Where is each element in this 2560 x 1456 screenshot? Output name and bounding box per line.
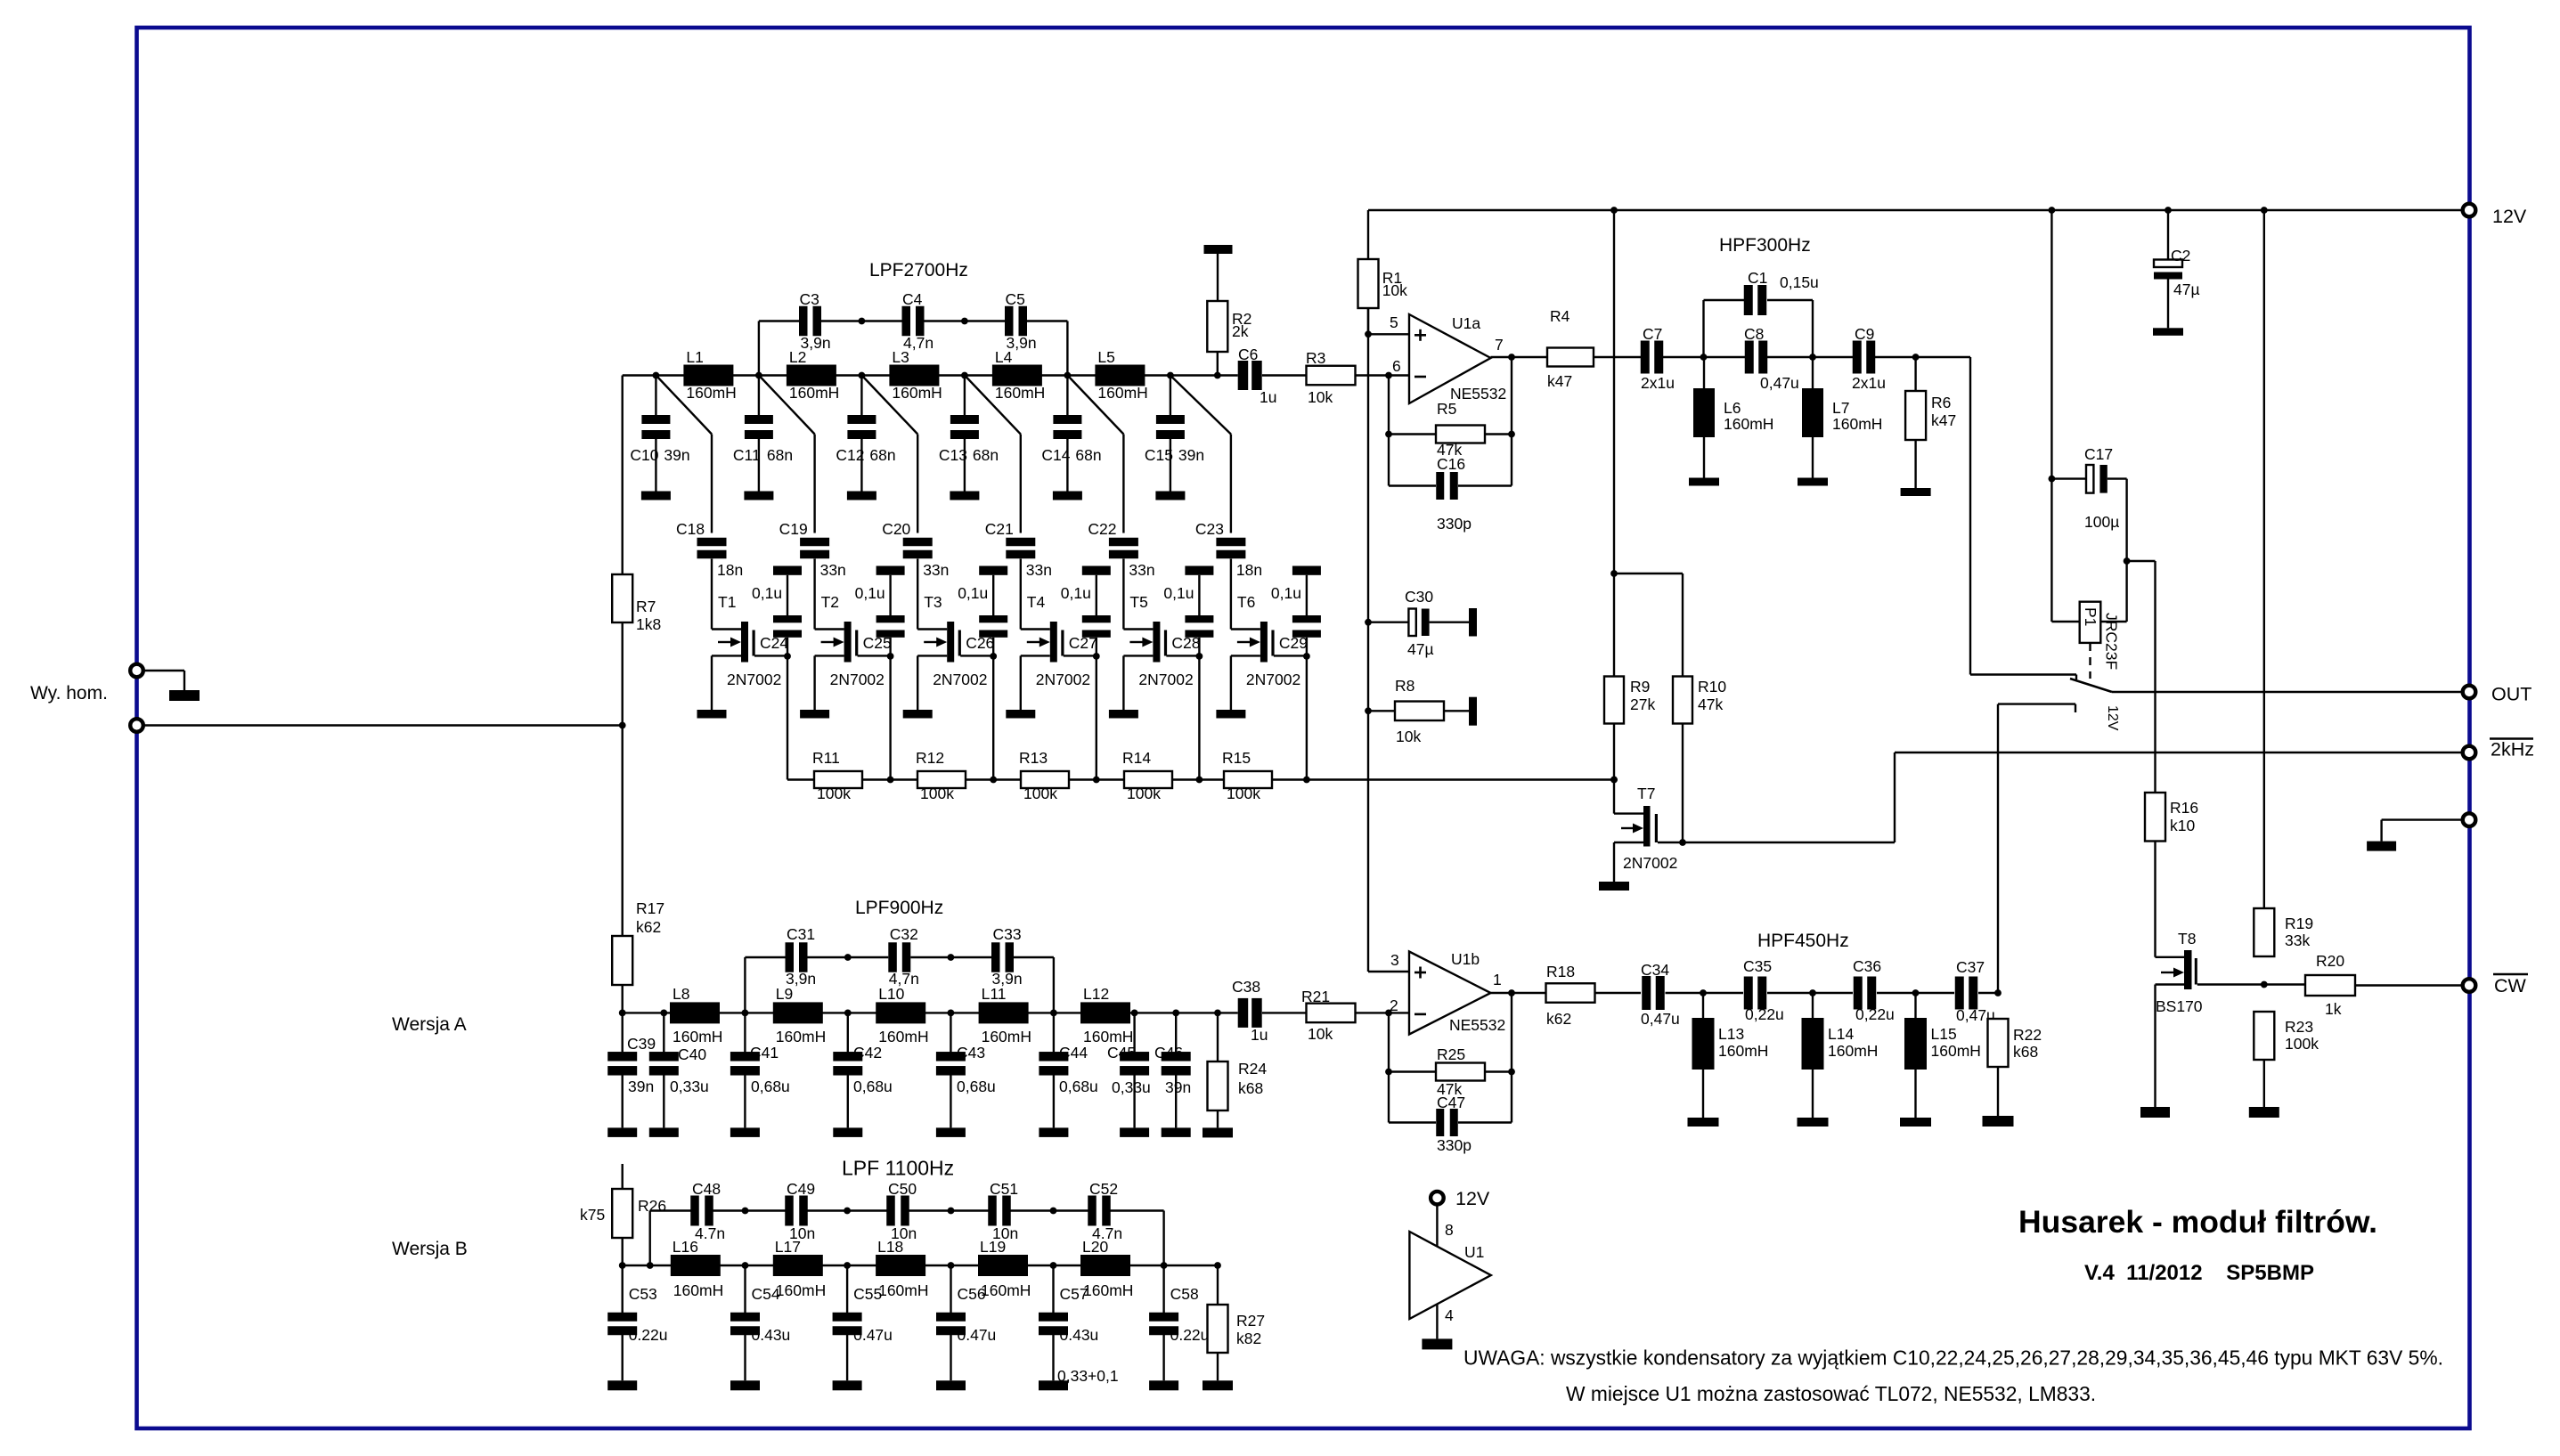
svg-text:2N7002: 2N7002 bbox=[1138, 671, 1193, 688]
svg-text:k47: k47 bbox=[1547, 372, 1572, 390]
svg-text:0,68u: 0,68u bbox=[751, 1078, 790, 1095]
svg-text:100k: 100k bbox=[2285, 1035, 2319, 1053]
svg-text:3,9n: 3,9n bbox=[786, 970, 816, 988]
svg-text:33n: 33n bbox=[820, 561, 846, 579]
svg-text:0,22u: 0,22u bbox=[1745, 1005, 1784, 1023]
svg-text:C15: C15 bbox=[1145, 446, 1173, 464]
svg-text:0,33+0,1: 0,33+0,1 bbox=[1057, 1367, 1119, 1385]
svg-text:160mH: 160mH bbox=[1832, 415, 1882, 433]
svg-text:L14: L14 bbox=[1828, 1025, 1854, 1043]
svg-text:C24: C24 bbox=[760, 634, 788, 652]
svg-text:12V: 12V bbox=[2105, 705, 2120, 731]
svg-text:C38: C38 bbox=[1232, 978, 1260, 996]
svg-text:160mH: 160mH bbox=[673, 1281, 723, 1299]
svg-text:C41: C41 bbox=[750, 1044, 779, 1061]
svg-text:U1a: U1a bbox=[1452, 314, 1480, 332]
svg-text:0,1u: 0,1u bbox=[1271, 584, 1301, 602]
svg-text:R26: R26 bbox=[638, 1197, 666, 1215]
svg-text:160mH: 160mH bbox=[1083, 1028, 1133, 1045]
svg-text:18n: 18n bbox=[1236, 561, 1262, 579]
svg-text:C35: C35 bbox=[1743, 957, 1772, 975]
svg-text:0,1u: 0,1u bbox=[752, 584, 782, 602]
svg-text:C30: C30 bbox=[1405, 588, 1433, 606]
svg-text:R9: R9 bbox=[1630, 678, 1650, 695]
svg-text:R21: R21 bbox=[1301, 988, 1330, 1005]
svg-text:100k: 100k bbox=[1023, 785, 1057, 802]
svg-text:C39: C39 bbox=[627, 1035, 656, 1053]
svg-text:160mH: 160mH bbox=[776, 1028, 826, 1045]
svg-text:68n: 68n bbox=[767, 446, 793, 464]
svg-text:0,15u: 0,15u bbox=[1780, 273, 1819, 291]
svg-text:C20: C20 bbox=[882, 520, 910, 538]
svg-text:160mH: 160mH bbox=[686, 384, 736, 402]
svg-text:33n: 33n bbox=[923, 561, 949, 579]
svg-text:R25: R25 bbox=[1437, 1045, 1465, 1063]
svg-text:LPF900Hz: LPF900Hz bbox=[855, 898, 943, 918]
svg-text:R10: R10 bbox=[1698, 678, 1726, 695]
svg-text:OUT: OUT bbox=[2491, 684, 2531, 705]
svg-text:Wy. hom.: Wy. hom. bbox=[30, 683, 108, 704]
svg-text:L13: L13 bbox=[1718, 1025, 1744, 1043]
svg-text:2x1u: 2x1u bbox=[1641, 374, 1675, 392]
svg-text:0.47u: 0.47u bbox=[853, 1326, 893, 1344]
svg-text:160mH: 160mH bbox=[878, 1028, 928, 1045]
svg-text:JRC23F: JRC23F bbox=[2103, 613, 2121, 670]
svg-text:27k: 27k bbox=[1630, 695, 1655, 713]
svg-text:160mH: 160mH bbox=[878, 1281, 928, 1299]
svg-text:0,68u: 0,68u bbox=[957, 1078, 996, 1095]
svg-text:160mH: 160mH bbox=[789, 384, 839, 402]
svg-text:C42: C42 bbox=[853, 1044, 882, 1061]
svg-text:L10: L10 bbox=[878, 985, 904, 1003]
svg-text:47µ: 47µ bbox=[2173, 281, 2200, 298]
svg-text:C19: C19 bbox=[779, 520, 808, 538]
svg-text:k68: k68 bbox=[2013, 1043, 2038, 1061]
svg-text:R11: R11 bbox=[812, 749, 840, 767]
svg-text:0,1u: 0,1u bbox=[1061, 584, 1091, 602]
svg-text:C48: C48 bbox=[692, 1180, 721, 1198]
svg-text:0,33u: 0,33u bbox=[670, 1078, 709, 1095]
svg-text:R4: R4 bbox=[1550, 307, 1570, 325]
svg-text:6: 6 bbox=[1392, 357, 1401, 375]
svg-text:4.7n: 4.7n bbox=[695, 1224, 725, 1242]
svg-text:R24: R24 bbox=[1238, 1060, 1267, 1078]
svg-text:5: 5 bbox=[1390, 313, 1398, 331]
svg-text:C5: C5 bbox=[1006, 290, 1025, 308]
svg-text:V.4 11/2012 SP5BMP: V.4 11/2012 SP5BMP bbox=[2084, 1261, 2314, 1285]
svg-text:C37: C37 bbox=[1956, 958, 1985, 976]
svg-text:T3: T3 bbox=[924, 593, 942, 611]
svg-text:68n: 68n bbox=[1075, 446, 1101, 464]
svg-text:C54: C54 bbox=[752, 1285, 780, 1303]
svg-text:C50: C50 bbox=[888, 1180, 917, 1198]
svg-text:C47: C47 bbox=[1437, 1094, 1465, 1111]
svg-text:R18: R18 bbox=[1546, 963, 1575, 980]
svg-text:C13: C13 bbox=[939, 446, 967, 464]
svg-text:C57: C57 bbox=[1060, 1285, 1088, 1303]
svg-text:T2: T2 bbox=[821, 593, 839, 611]
svg-text:1k: 1k bbox=[2325, 1000, 2342, 1018]
svg-text:T4: T4 bbox=[1027, 593, 1046, 611]
svg-text:Wersja A: Wersja A bbox=[392, 1014, 467, 1035]
svg-text:C26: C26 bbox=[966, 634, 994, 652]
svg-text:100µ: 100µ bbox=[2084, 513, 2119, 531]
svg-text:R5: R5 bbox=[1437, 400, 1456, 418]
svg-text:C46: C46 bbox=[1154, 1044, 1183, 1061]
svg-text:10n: 10n bbox=[992, 1224, 1018, 1242]
svg-text:C43: C43 bbox=[957, 1044, 985, 1061]
svg-text:160mH: 160mH bbox=[892, 384, 942, 402]
svg-text:10n: 10n bbox=[891, 1224, 917, 1242]
svg-text:330p: 330p bbox=[1437, 515, 1472, 533]
svg-text:7: 7 bbox=[1495, 336, 1504, 354]
svg-text:3,9n: 3,9n bbox=[992, 970, 1023, 988]
svg-text:2x1u: 2x1u bbox=[1852, 374, 1886, 392]
svg-text:C12: C12 bbox=[836, 446, 864, 464]
svg-text:L7: L7 bbox=[1832, 399, 1849, 417]
svg-text:2N7002: 2N7002 bbox=[830, 671, 885, 688]
svg-text:160mH: 160mH bbox=[1083, 1281, 1133, 1299]
svg-text:C23: C23 bbox=[1195, 520, 1224, 538]
svg-text:160mH: 160mH bbox=[673, 1028, 722, 1045]
svg-text:0,33u: 0,33u bbox=[1112, 1078, 1151, 1096]
svg-text:68n: 68n bbox=[973, 446, 999, 464]
svg-text:0.22u: 0.22u bbox=[1170, 1326, 1210, 1344]
svg-text:2N7002: 2N7002 bbox=[727, 671, 781, 688]
svg-text:2k: 2k bbox=[1232, 322, 1249, 340]
svg-text:4,7n: 4,7n bbox=[889, 970, 919, 988]
svg-text:47k: 47k bbox=[1698, 695, 1723, 713]
svg-text:39n: 39n bbox=[1165, 1078, 1191, 1096]
svg-text:R16: R16 bbox=[2170, 799, 2198, 817]
svg-text:160mH: 160mH bbox=[982, 1028, 1031, 1045]
svg-text:R3: R3 bbox=[1306, 349, 1325, 367]
svg-text:C7: C7 bbox=[1643, 325, 1662, 343]
svg-text:2N7002: 2N7002 bbox=[1246, 671, 1300, 688]
svg-text:R6: R6 bbox=[1931, 394, 1951, 411]
svg-text:T8: T8 bbox=[2178, 930, 2196, 948]
svg-text:33n: 33n bbox=[1129, 561, 1154, 579]
svg-text:L12: L12 bbox=[1083, 985, 1109, 1003]
svg-text:C36: C36 bbox=[1853, 957, 1881, 975]
svg-text:39n: 39n bbox=[628, 1078, 654, 1095]
svg-text:C6: C6 bbox=[1238, 346, 1258, 363]
svg-text:R19: R19 bbox=[2285, 915, 2313, 932]
svg-text:C28: C28 bbox=[1171, 634, 1200, 652]
svg-text:1u: 1u bbox=[1251, 1026, 1268, 1044]
svg-text:C22: C22 bbox=[1088, 520, 1116, 538]
svg-text:68n: 68n bbox=[869, 446, 895, 464]
svg-text:C18: C18 bbox=[676, 520, 705, 538]
svg-text:k47: k47 bbox=[1931, 411, 1956, 429]
svg-text:R23: R23 bbox=[2285, 1018, 2313, 1036]
svg-text:2N7002: 2N7002 bbox=[933, 671, 987, 688]
svg-text:C14: C14 bbox=[1041, 446, 1070, 464]
svg-text:160mH: 160mH bbox=[1724, 415, 1773, 433]
svg-text:L6: L6 bbox=[1724, 399, 1741, 417]
svg-text:4.7n: 4.7n bbox=[1092, 1224, 1122, 1242]
svg-text:T7: T7 bbox=[1637, 785, 1655, 802]
svg-text:10k: 10k bbox=[1396, 728, 1421, 745]
svg-text:k62: k62 bbox=[636, 918, 661, 936]
svg-text:18n: 18n bbox=[717, 561, 743, 579]
svg-text:160mH: 160mH bbox=[776, 1281, 826, 1299]
svg-text:L11: L11 bbox=[982, 985, 1007, 1003]
svg-text:L15: L15 bbox=[1931, 1025, 1957, 1043]
svg-text:160mH: 160mH bbox=[1931, 1042, 1981, 1060]
svg-text:C45: C45 bbox=[1107, 1044, 1136, 1061]
svg-text:U1b: U1b bbox=[1451, 950, 1480, 968]
svg-text:LPF2700Hz: LPF2700Hz bbox=[869, 260, 968, 281]
svg-text:L5: L5 bbox=[1097, 348, 1114, 366]
svg-text:0,47u: 0,47u bbox=[1641, 1010, 1680, 1028]
svg-text:4: 4 bbox=[1445, 1306, 1454, 1324]
svg-text:2N7002: 2N7002 bbox=[1623, 854, 1677, 872]
svg-text:T5: T5 bbox=[1129, 593, 1147, 611]
svg-text:C52: C52 bbox=[1089, 1180, 1118, 1198]
svg-text:0,1u: 0,1u bbox=[958, 584, 988, 602]
svg-text:L9: L9 bbox=[776, 985, 793, 1003]
svg-text:k68: k68 bbox=[1238, 1079, 1263, 1097]
svg-text:R13: R13 bbox=[1019, 749, 1048, 767]
svg-text:160mH: 160mH bbox=[995, 384, 1045, 402]
svg-text:C25: C25 bbox=[863, 634, 892, 652]
svg-text:R27: R27 bbox=[1236, 1312, 1265, 1330]
svg-text:3,9n: 3,9n bbox=[801, 334, 831, 352]
svg-text:HPF300Hz: HPF300Hz bbox=[1719, 235, 1811, 256]
svg-text:160mH: 160mH bbox=[1097, 384, 1147, 402]
svg-text:C17: C17 bbox=[2084, 445, 2113, 463]
svg-text:C55: C55 bbox=[853, 1285, 882, 1303]
svg-text:10n: 10n bbox=[789, 1224, 815, 1242]
svg-text:3: 3 bbox=[1390, 951, 1399, 969]
svg-text:330p: 330p bbox=[1437, 1136, 1472, 1154]
svg-text:C27: C27 bbox=[1069, 634, 1097, 652]
svg-text:C58: C58 bbox=[1170, 1285, 1199, 1303]
svg-text:T6: T6 bbox=[1237, 593, 1255, 611]
svg-text:100k: 100k bbox=[817, 785, 851, 802]
svg-text:C33: C33 bbox=[993, 925, 1022, 943]
svg-text:C1: C1 bbox=[1748, 269, 1767, 287]
svg-text:12V: 12V bbox=[1455, 1188, 1490, 1209]
svg-text:C49: C49 bbox=[787, 1180, 815, 1198]
svg-text:4,7n: 4,7n bbox=[903, 334, 934, 352]
svg-text:R7: R7 bbox=[636, 598, 656, 615]
svg-text:0,68u: 0,68u bbox=[853, 1078, 893, 1095]
svg-text:Wersja B: Wersja B bbox=[392, 1239, 468, 1259]
svg-text:160mH: 160mH bbox=[1828, 1042, 1878, 1060]
svg-text:C11: C11 bbox=[733, 446, 761, 464]
svg-text:C34: C34 bbox=[1641, 961, 1669, 979]
svg-text:R8: R8 bbox=[1395, 677, 1415, 695]
svg-text:47µ: 47µ bbox=[1407, 640, 1434, 658]
svg-text:C53: C53 bbox=[629, 1285, 657, 1303]
svg-text:L8: L8 bbox=[673, 985, 689, 1003]
svg-text:L1: L1 bbox=[686, 348, 703, 366]
svg-text:0,68u: 0,68u bbox=[1059, 1078, 1098, 1095]
svg-text:R17: R17 bbox=[636, 899, 664, 917]
svg-text:R15: R15 bbox=[1222, 749, 1251, 767]
svg-text:C8: C8 bbox=[1744, 325, 1764, 343]
svg-text:C40: C40 bbox=[678, 1045, 706, 1063]
svg-text:1: 1 bbox=[1493, 971, 1502, 988]
svg-text:0.43u: 0.43u bbox=[752, 1326, 791, 1344]
svg-text:160mH: 160mH bbox=[981, 1281, 1031, 1299]
svg-text:NE5532: NE5532 bbox=[1449, 1016, 1505, 1034]
svg-text:R14: R14 bbox=[1122, 749, 1151, 767]
svg-text:k10: k10 bbox=[2170, 817, 2195, 834]
svg-text:C4: C4 bbox=[902, 290, 923, 308]
svg-text:C10: C10 bbox=[630, 446, 658, 464]
svg-text:C56: C56 bbox=[958, 1285, 986, 1303]
svg-text:3,9n: 3,9n bbox=[1007, 334, 1037, 352]
svg-text:NE5532: NE5532 bbox=[1450, 385, 1506, 403]
svg-text:C44: C44 bbox=[1059, 1044, 1088, 1061]
svg-text:10k: 10k bbox=[1308, 1025, 1333, 1043]
svg-text:2N7002: 2N7002 bbox=[1036, 671, 1090, 688]
svg-text:k75: k75 bbox=[580, 1206, 605, 1224]
svg-text:k82: k82 bbox=[1236, 1330, 1261, 1347]
svg-text:0.43u: 0.43u bbox=[1060, 1326, 1099, 1344]
svg-text:12V: 12V bbox=[2492, 206, 2527, 227]
svg-text:C16: C16 bbox=[1437, 455, 1465, 473]
svg-text:0.47u: 0.47u bbox=[958, 1326, 997, 1344]
svg-text:0,22u: 0,22u bbox=[1855, 1005, 1895, 1023]
svg-text:C29: C29 bbox=[1279, 634, 1308, 652]
svg-text:CW: CW bbox=[2494, 975, 2527, 996]
svg-text:R20: R20 bbox=[2316, 952, 2344, 970]
svg-text:1k8: 1k8 bbox=[636, 615, 661, 633]
svg-text:160mH: 160mH bbox=[1718, 1042, 1768, 1060]
svg-text:UWAGA: wszystkie kondensatory: UWAGA: wszystkie kondensatory za wyjątki… bbox=[1463, 1346, 2443, 1370]
svg-text:33n: 33n bbox=[1026, 561, 1052, 579]
svg-text:HPF450Hz: HPF450Hz bbox=[1757, 931, 1849, 951]
svg-text:0,1u: 0,1u bbox=[855, 584, 885, 602]
svg-text:Husarek - moduł filtrów.: Husarek - moduł filtrów. bbox=[2018, 1204, 2377, 1240]
svg-text:33k: 33k bbox=[2285, 931, 2310, 949]
svg-text:2kHz: 2kHz bbox=[2491, 739, 2534, 761]
svg-text:1u: 1u bbox=[1260, 388, 1276, 406]
svg-text:0.22u: 0.22u bbox=[629, 1326, 668, 1344]
svg-text:10k: 10k bbox=[1308, 388, 1333, 406]
svg-text:100k: 100k bbox=[1127, 785, 1161, 802]
svg-text:P1: P1 bbox=[2082, 607, 2099, 626]
svg-text:39n: 39n bbox=[664, 446, 689, 464]
svg-text:LPF 1100Hz: LPF 1100Hz bbox=[842, 1157, 954, 1180]
svg-text:10k: 10k bbox=[1382, 281, 1407, 299]
svg-text:C3: C3 bbox=[800, 290, 819, 308]
svg-text:8: 8 bbox=[1445, 1221, 1454, 1239]
svg-text:R12: R12 bbox=[916, 749, 944, 767]
svg-text:39n: 39n bbox=[1178, 446, 1204, 464]
svg-text:0,47u: 0,47u bbox=[1760, 374, 1799, 392]
svg-text:C32: C32 bbox=[890, 925, 918, 943]
svg-text:C9: C9 bbox=[1855, 325, 1874, 343]
svg-text:100k: 100k bbox=[920, 785, 954, 802]
svg-text:100k: 100k bbox=[1227, 785, 1260, 802]
svg-text:T1: T1 bbox=[718, 593, 736, 611]
svg-text:C21: C21 bbox=[985, 520, 1014, 538]
svg-text:C51: C51 bbox=[990, 1180, 1018, 1198]
svg-text:R22: R22 bbox=[2013, 1026, 2042, 1044]
svg-text:C2: C2 bbox=[2171, 247, 2190, 264]
svg-text:0,1u: 0,1u bbox=[1163, 584, 1194, 602]
svg-text:k62: k62 bbox=[1546, 1010, 1571, 1028]
svg-text:BS170: BS170 bbox=[2156, 997, 2203, 1015]
svg-text:C31: C31 bbox=[787, 925, 815, 943]
svg-text:U1: U1 bbox=[1464, 1243, 1484, 1261]
svg-text:W miejsce U1 można zastosować: W miejsce U1 można zastosować TL072, NE5… bbox=[1566, 1382, 2096, 1405]
